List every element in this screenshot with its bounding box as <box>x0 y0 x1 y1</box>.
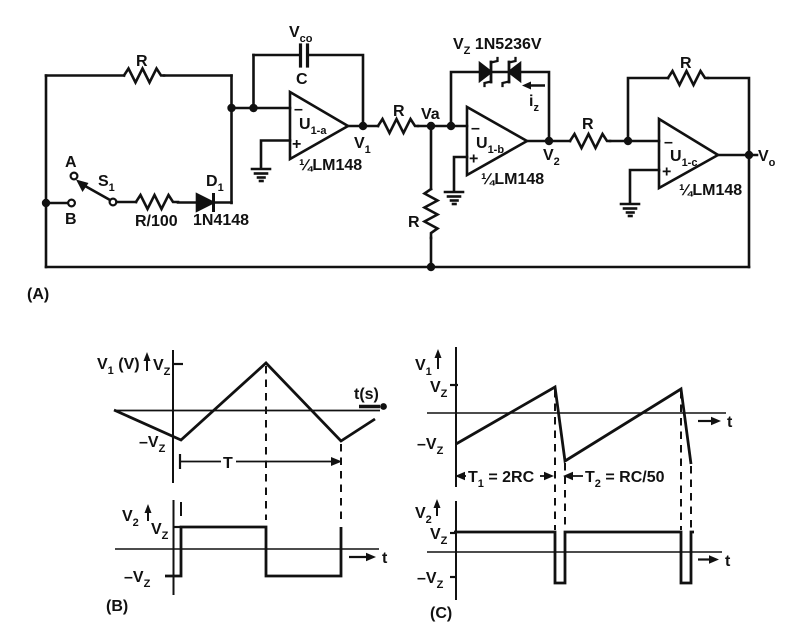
wire Va line <box>418 125 467 128</box>
svg-text:VZ: VZ <box>430 526 448 547</box>
wire U1-b output <box>527 140 570 143</box>
wire top left to resistor R <box>46 74 124 77</box>
svg-text:+: + <box>292 136 301 153</box>
node junction V1 output <box>359 122 367 130</box>
wire resistor R to corner <box>164 74 232 77</box>
svg-text:V2: V2 <box>543 147 560 168</box>
switch S1 terminal B <box>68 200 75 207</box>
wire vertical R below Va <box>430 126 433 189</box>
zener diode left (1N5236) <box>480 58 498 86</box>
svg-text:T1 = 2RC: T1 = 2RC <box>468 469 535 490</box>
node V2 output <box>545 137 553 145</box>
node Vo output <box>745 151 753 159</box>
svg-text:Vo: Vo <box>758 148 776 169</box>
svg-text:R: R <box>582 116 594 133</box>
svg-text:U1-c: U1-c <box>670 148 697 169</box>
wire left rail <box>45 76 48 268</box>
svg-text:R: R <box>408 214 420 231</box>
node junction at capacitor branch <box>249 104 257 112</box>
svg-text:U1-a: U1-a <box>299 116 327 137</box>
node junction at R branch <box>227 104 235 112</box>
wire summing node to U1-a inverting input <box>232 107 291 110</box>
graph B t(s) arrow <box>359 403 387 410</box>
svg-text:(C): (C) <box>430 605 452 622</box>
svg-text:iz: iz <box>529 93 539 114</box>
resistor R (vertical) <box>425 189 438 238</box>
svg-text:–VZ: –VZ <box>124 569 151 590</box>
wire U1-a non-inverting input <box>261 141 290 168</box>
period T dimension line left <box>180 461 221 463</box>
ground at U1-c <box>621 204 639 216</box>
T2 dimension left arrow <box>563 472 583 480</box>
wire U1-a output <box>348 125 378 128</box>
svg-text:V1: V1 <box>354 135 371 156</box>
dashed line at triangle min <box>340 444 342 524</box>
svg-text:R: R <box>393 103 405 120</box>
node zener tap <box>447 122 455 130</box>
graph B V2 up arrow <box>145 504 152 521</box>
waveform V2 pulses <box>454 532 694 583</box>
svg-text:T2 = RC/50: T2 = RC/50 <box>585 469 665 490</box>
wire switch to R/100 <box>117 201 137 204</box>
graph B V1 time axis <box>114 410 380 412</box>
svg-text:U1-b: U1-b <box>476 135 504 156</box>
tick Vz upper B <box>173 363 183 365</box>
wire R/100 to D1 <box>178 201 197 204</box>
wire U1-c output <box>718 154 757 157</box>
wire feedback branch up <box>628 78 668 141</box>
svg-text:V2: V2 <box>122 508 139 529</box>
tick -Vz lower C <box>450 576 457 578</box>
svg-text:B: B <box>65 211 77 228</box>
graph C V1 t arrow <box>698 417 721 425</box>
wire D1 to summing branch <box>214 201 232 204</box>
svg-text:VZ: VZ <box>153 357 171 378</box>
op-amp U1-c <box>659 119 718 188</box>
diode D1 1N4148 <box>197 195 214 211</box>
waveform V1 sawtooth <box>456 387 691 464</box>
svg-text:¼LM148: ¼LM148 <box>481 171 544 188</box>
svg-text:C: C <box>296 71 308 88</box>
svg-text:R: R <box>136 53 148 70</box>
graph B V2 t arrow <box>349 553 376 561</box>
wire to capacitor C left plate <box>254 54 301 57</box>
svg-text:Vco: Vco <box>289 24 313 45</box>
graph B V1 vertical axis <box>172 350 174 483</box>
svg-text:A: A <box>65 154 77 171</box>
switch S1 pivot <box>110 199 117 206</box>
tick Vz lower B <box>174 526 182 528</box>
switch S1 terminal A <box>71 173 78 180</box>
svg-text:V1: V1 <box>415 357 432 378</box>
resistor R (V2 to U1-c) <box>570 134 610 148</box>
ground at U1-b <box>445 192 463 204</box>
svg-text:(A): (A) <box>27 286 49 303</box>
svg-text:R: R <box>680 55 692 72</box>
tick Vz lower C <box>450 532 457 534</box>
svg-text:T: T <box>223 455 233 472</box>
waveform V2 square <box>165 527 341 576</box>
svg-text:VZ: VZ <box>430 379 448 400</box>
svg-text:V2: V2 <box>415 505 432 526</box>
dashed line sawtooth min 1 <box>564 463 566 530</box>
wire to switch terminal B <box>46 202 68 205</box>
svg-text:¼LM148: ¼LM148 <box>679 182 742 199</box>
svg-text:V1 (V): V1 (V) <box>97 356 140 377</box>
wire zener branch up <box>451 72 480 126</box>
graph C V2 time axis <box>427 551 722 553</box>
svg-text:+: + <box>662 164 671 181</box>
resistor R (top left) <box>124 69 164 83</box>
wire bottom rail <box>46 266 749 269</box>
capacitor C <box>301 45 308 66</box>
svg-text:t: t <box>725 553 731 570</box>
node junction bottom rail <box>427 263 435 271</box>
graph C V2 vertical axis <box>455 501 457 600</box>
T1 dimension right arrow <box>540 472 554 480</box>
graph B V2 vertical axis <box>173 500 175 595</box>
period T dimension line right with arrow <box>236 457 342 466</box>
switch S1 arm arrowhead <box>76 180 89 193</box>
ground at U1-a <box>252 169 270 181</box>
wire zener branch down to V2 <box>520 72 549 141</box>
svg-text:–VZ: –VZ <box>417 570 444 591</box>
op-amp U1-b <box>467 107 527 175</box>
wire capacitor C right plate to V1 <box>309 55 364 126</box>
node Va <box>427 122 435 130</box>
svg-text:–VZ: –VZ <box>139 434 166 455</box>
graph C V2 t arrow <box>698 555 719 563</box>
wire U1-c non-inverting input <box>630 170 659 202</box>
dashed line sawtooth peak 1 <box>554 390 556 530</box>
resistor R/100 <box>136 195 178 209</box>
wire vertical R to bottom rail <box>430 238 433 267</box>
switch S1 arm <box>86 187 110 201</box>
arrow iz <box>528 84 545 87</box>
graph C V1 vertical axis <box>455 347 457 487</box>
waveform V1 triangle <box>114 363 375 441</box>
node feedback tap <box>624 137 632 145</box>
wire between zeners <box>491 71 509 74</box>
graph B V1 up arrow <box>144 352 151 371</box>
dashed line sawtooth min 2 <box>690 466 692 530</box>
svg-text:–VZ: –VZ <box>417 436 444 457</box>
dashed stub above first edge <box>180 502 182 516</box>
svg-text:VZ: VZ <box>151 521 169 542</box>
svg-text:Va: Va <box>421 106 440 123</box>
svg-text:S1: S1 <box>98 173 115 194</box>
tick Vz upper C <box>450 384 458 386</box>
graph C V1 up arrow <box>435 349 442 369</box>
op-amp U1-a <box>290 92 348 159</box>
T1 dimension left arrow <box>455 472 466 480</box>
period T dimension left bar <box>179 454 181 469</box>
svg-text:1N4148: 1N4148 <box>193 212 249 229</box>
dashed line sawtooth peak 2 <box>680 391 682 530</box>
node junction at B <box>42 199 50 207</box>
wire Vo to bottom rail <box>748 155 751 267</box>
svg-text:R/100: R/100 <box>135 213 178 230</box>
wire U1-b non-inverting input <box>454 157 467 190</box>
svg-text:t: t <box>382 550 388 567</box>
zener diode right (1N5236) <box>503 58 521 86</box>
svg-text:(B): (B) <box>106 598 128 615</box>
resistor R (feedback U1-c) <box>668 71 708 85</box>
graph C V1 time axis <box>427 412 726 414</box>
svg-text:t: t <box>727 414 733 431</box>
wire capacitor branch up <box>252 55 255 108</box>
svg-text:t(s): t(s) <box>354 386 379 403</box>
svg-text:¼LM148: ¼LM148 <box>299 157 362 174</box>
wire R to U1-c inverting input <box>610 140 659 143</box>
svg-text:VZ 1N5236V: VZ 1N5236V <box>453 36 542 57</box>
dashed line at triangle peak <box>265 366 267 520</box>
svg-text:+: + <box>469 151 478 168</box>
svg-text:D1: D1 <box>206 173 224 194</box>
wire feedback to Vo <box>708 78 749 155</box>
resistor R (V1 to Va) <box>378 119 418 133</box>
wire vertical into summing node <box>230 76 233 204</box>
graph B V2 time axis <box>115 548 379 550</box>
graph C V2 up arrow <box>434 499 441 516</box>
